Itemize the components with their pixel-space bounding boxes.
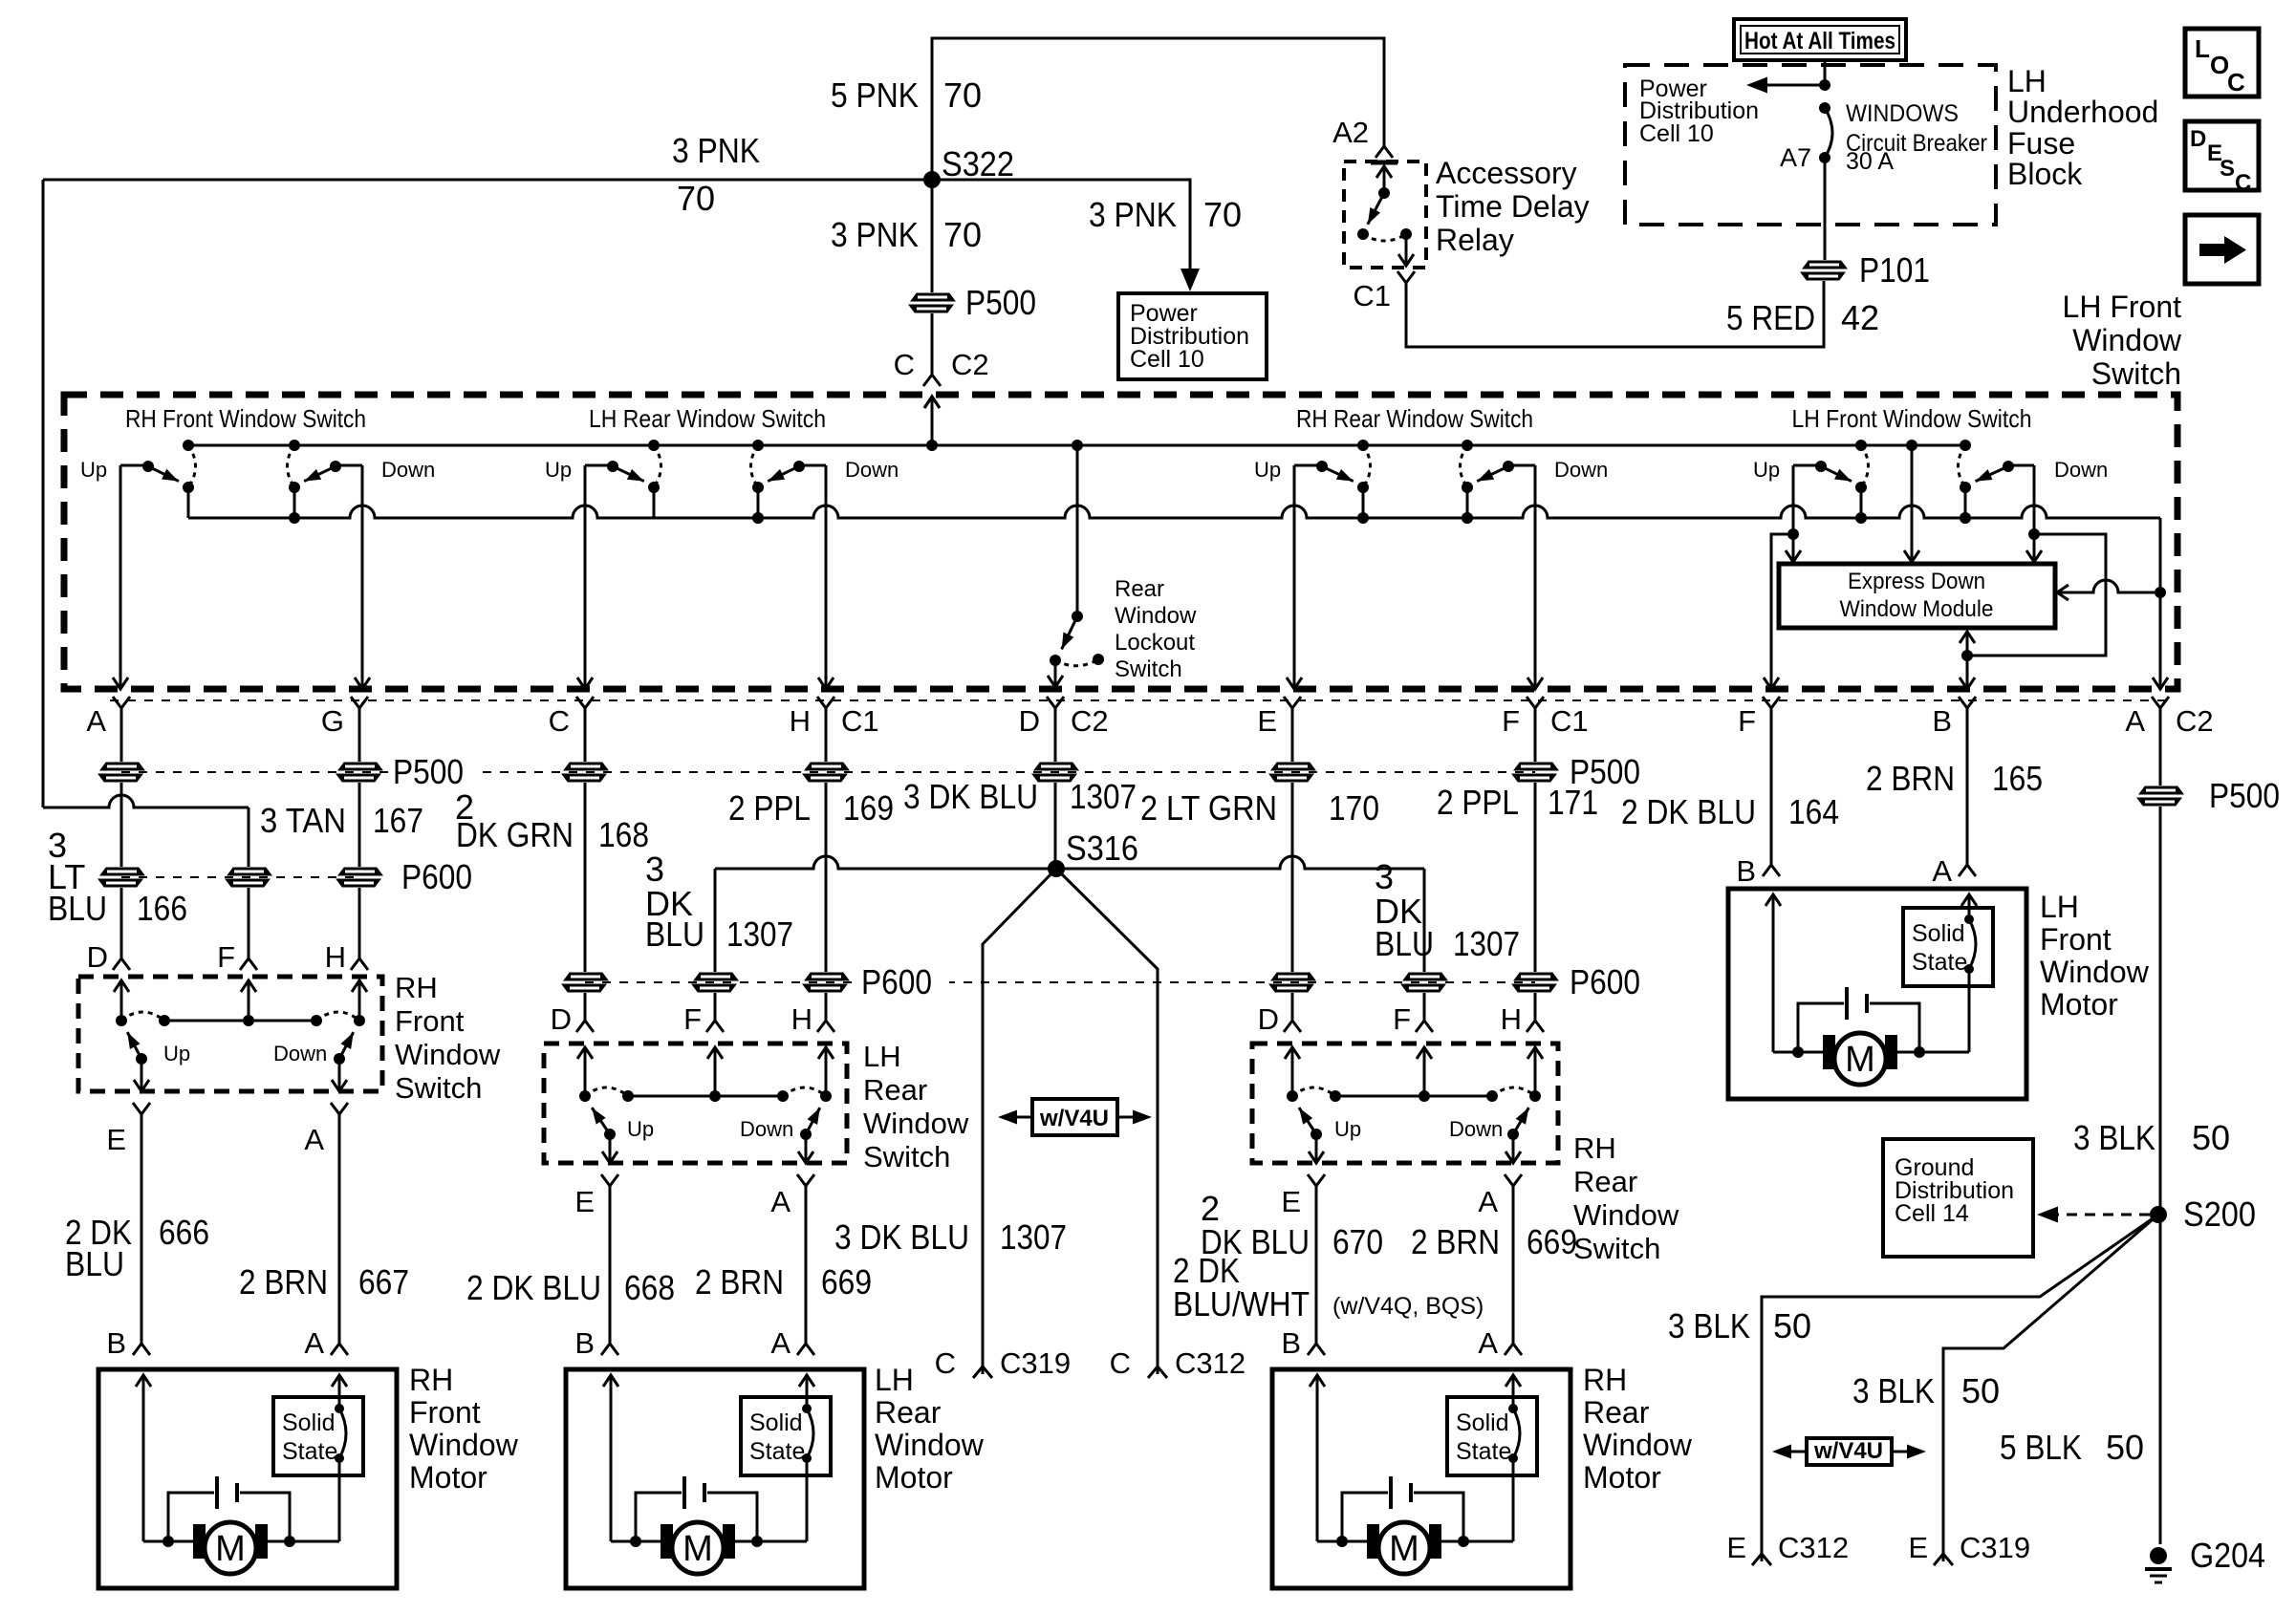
relay moving contact arrow up	[1376, 166, 1392, 178]
switch LH rear window switch (lower)	[544, 1040, 969, 1173]
svg-text:Up: Up	[545, 458, 572, 482]
switch RH rear window switch (lower)	[1252, 1044, 1679, 1265]
splice S316	[1048, 860, 1065, 877]
svg-text:Window: Window	[1573, 1198, 1679, 1232]
connector P600 row2 at x=864	[805, 973, 849, 980]
motor M with brushes	[1823, 1035, 1835, 1069]
svg-text:170: 170	[1329, 788, 1379, 828]
svg-text:Motor: Motor	[409, 1460, 487, 1495]
svg-text:70: 70	[943, 75, 982, 115]
svg-text:2 PPL: 2 PPL	[1437, 783, 1519, 822]
svg-text:D: D	[2190, 126, 2206, 152]
svg-text:A: A	[304, 1326, 324, 1360]
svg-text:2 DK BLU: 2 DK BLU	[466, 1268, 601, 1307]
svg-text:166: 166	[137, 889, 187, 928]
svg-text:A: A	[86, 704, 106, 738]
switch LH rear window switch (upper)	[545, 404, 899, 524]
svg-text:Accessory: Accessory	[1436, 156, 1577, 190]
svg-text:F: F	[217, 940, 235, 974]
svg-text:2 BRN: 2 BRN	[1866, 759, 1955, 798]
svg-text:H: H	[325, 940, 346, 974]
svg-text:3 PNK: 3 PNK	[672, 131, 760, 170]
wire brush leads	[1317, 1540, 1367, 1543]
connector P600 row2 at x=1352	[1271, 973, 1315, 980]
svg-text:3 PNK: 3 PNK	[1089, 195, 1177, 234]
inline connector C2	[923, 375, 941, 386]
svg-text:w/V4U: w/V4U	[1813, 1438, 1883, 1464]
wire S316 right branch to RH rear F	[1423, 869, 1426, 972]
svg-text:1307: 1307	[726, 915, 793, 954]
switch contacts + levers	[1310, 1129, 1322, 1140]
connector P500 at x=127	[100, 763, 144, 770]
svg-text:5 PNK: 5 PNK	[831, 75, 919, 115]
wire S316 distribution line	[715, 856, 1424, 869]
wire motor input right	[332, 1375, 347, 1387]
svg-text:C: C	[2235, 170, 2251, 196]
relay Accessory Time Delay Relay (dashed box)	[1344, 161, 1426, 268]
svg-text:G204: G204	[2190, 1536, 2265, 1575]
svg-text:2 BRN: 2 BRN	[695, 1262, 784, 1302]
svg-text:P500: P500	[2209, 776, 2280, 815]
relay fixed contact bar	[1371, 161, 1397, 165]
svg-text:Down: Down	[1449, 1117, 1503, 1141]
svg-text:167: 167	[373, 801, 423, 840]
svg-text:BLU: BLU	[645, 915, 704, 954]
svg-text:RH: RH	[409, 1363, 453, 1397]
svg-text:C319: C319	[1000, 1346, 1071, 1380]
svg-text:A2: A2	[1332, 116, 1369, 149]
svg-text:Down: Down	[740, 1117, 793, 1141]
node lockout feed junction	[1072, 440, 1083, 451]
connector P500 at x=1352	[1271, 763, 1315, 770]
svg-text:666: 666	[159, 1213, 209, 1252]
connector pin F at x=1853	[1763, 697, 1780, 708]
svg-text:668: 668	[624, 1268, 675, 1307]
node feed bus junction (C2 feed)	[926, 440, 938, 451]
svg-text:Time Delay: Time Delay	[1436, 189, 1590, 224]
svg-text:Motor: Motor	[1583, 1460, 1661, 1495]
svg-text:A: A	[770, 1185, 791, 1218]
svg-text:B: B	[1932, 704, 1952, 738]
svg-text:669: 669	[821, 1262, 872, 1302]
connector P500 at x=612	[564, 763, 608, 770]
battery (motor armature supply)	[636, 1493, 682, 1541]
wire switch outputs E A	[609, 1134, 612, 1161]
svg-text:Down: Down	[845, 458, 899, 482]
splice S322	[923, 171, 941, 188]
svg-text:Switch: Switch	[1573, 1232, 1660, 1265]
svg-text:P500: P500	[965, 283, 1036, 322]
svg-text:LH Front: LH Front	[2063, 290, 2182, 324]
wire RH rear switch down output to F	[1534, 465, 1537, 687]
circuit breaker WINDOWS 30 A	[1819, 102, 1830, 114]
svg-text:50: 50	[2192, 1118, 2230, 1157]
connector pins D F H (RH front lower)	[113, 958, 130, 970]
svg-text:1307: 1307	[1453, 924, 1520, 963]
svg-text:Solid: Solid	[282, 1410, 336, 1436]
switch rocker pivots	[579, 1090, 591, 1102]
svg-text:168: 168	[598, 815, 649, 854]
switch rocker pivots	[116, 1015, 127, 1026]
svg-text:3 PNK: 3 PNK	[831, 215, 919, 254]
svg-text:LH: LH	[875, 1363, 914, 1397]
wire D column (3 DK BLU 1307) to S316	[1054, 708, 1057, 762]
svg-text:E: E	[1908, 1531, 1928, 1564]
svg-text:DK BLU: DK BLU	[1201, 1222, 1310, 1261]
wire breaker output	[1824, 158, 1827, 260]
svg-text:Switch: Switch	[395, 1071, 482, 1105]
svg-text:C: C	[2227, 68, 2245, 97]
svg-text:M: M	[1845, 1040, 1875, 1080]
connector P600 at x=376	[338, 868, 382, 875]
box Ground Distribution Cell 14	[1883, 1139, 2033, 1257]
svg-text:A: A	[770, 1326, 791, 1360]
switch RH front window switch (lower)	[78, 971, 501, 1105]
splice S200	[2150, 1206, 2167, 1223]
switch rocker pivots	[1287, 1090, 1298, 1102]
svg-text:169: 169	[843, 788, 894, 828]
svg-text:S200: S200	[2183, 1194, 2256, 1234]
svg-text:S316: S316	[1066, 829, 1138, 868]
svg-text:D: D	[1258, 1002, 1279, 1036]
wire E->B LH rear motor (2 DK BLU 668)	[601, 1174, 618, 1186]
switch down contact lever	[1508, 464, 1535, 467]
wire A->A RH front motor (2 BRN 667)	[331, 1103, 348, 1114]
svg-text:B: B	[574, 1326, 595, 1360]
svg-text:P101: P101	[1859, 250, 1930, 290]
connector pin H at x=864	[817, 697, 834, 708]
solid state breaker	[1903, 908, 1993, 986]
svg-text:B: B	[1736, 854, 1756, 888]
connector P600 row 2 (dashed)	[585, 981, 1535, 983]
svg-text:Switch: Switch	[2091, 356, 2181, 391]
svg-text:C312: C312	[1175, 1346, 1245, 1380]
svg-text:Rear: Rear	[1573, 1165, 1637, 1198]
solid state breaker	[273, 1397, 363, 1475]
svg-text:Fuse: Fuse	[2007, 126, 2075, 161]
relay output to C1	[1405, 234, 1408, 254]
svg-text:C2: C2	[2176, 704, 2214, 738]
svg-text:C312: C312	[1778, 1531, 1849, 1564]
svg-text:Up: Up	[1254, 458, 1281, 482]
wire RH front switch down output to G	[361, 465, 364, 687]
wire 3 BLK 50 to C319	[1943, 1215, 2158, 1561]
svg-text:D: D	[1019, 704, 1040, 738]
connector P500 (power feed)	[911, 293, 955, 301]
connector pin G at x=376	[351, 697, 368, 708]
wire breaker to brush	[806, 1458, 809, 1541]
svg-text:C: C	[935, 1346, 956, 1380]
switch down contact lever	[2008, 464, 2034, 467]
svg-text:Relay: Relay	[1436, 223, 1514, 257]
junction to Power Distribution	[1819, 79, 1830, 91]
svg-text:Motor: Motor	[2040, 987, 2118, 1022]
wire A->A RH rear motor (2 BRN 669)	[1505, 1174, 1522, 1186]
wire switch inputs D F H	[577, 1047, 593, 1059]
wire breaker to brush	[1968, 969, 1971, 1052]
svg-text:Window Module: Window Module	[1840, 596, 1994, 622]
svg-text:Up: Up	[163, 1042, 190, 1065]
svg-text:B: B	[106, 1326, 126, 1360]
connector P600 at x=260	[227, 868, 271, 875]
svg-text:Up: Up	[627, 1117, 654, 1141]
svg-text:1307: 1307	[1000, 1217, 1067, 1257]
svg-text:171: 171	[1548, 783, 1598, 822]
connector P500 row (dashed)	[121, 771, 1535, 773]
wire 3 PNK 70 horizontal to left edge	[43, 179, 932, 182]
box LH Underhood Fuse Block (dashed)	[1625, 65, 1996, 225]
switch up contact lever	[1294, 464, 1322, 467]
svg-text:E: E	[106, 1123, 126, 1156]
svg-text:WINDOWS: WINDOWS	[1846, 100, 1959, 127]
svg-text:RH Front Window Switch: RH Front Window Switch	[125, 404, 366, 433]
wire motor input left	[136, 1375, 151, 1387]
connector pin E at x=1352	[1284, 697, 1301, 708]
connector P500 at x=1104	[1034, 763, 1078, 770]
svg-text:3 TAN: 3 TAN	[260, 801, 346, 840]
connector P500 at x=1606	[1514, 763, 1558, 770]
svg-text:Express Down: Express Down	[1848, 569, 1985, 594]
box LOC	[2185, 29, 2259, 97]
svg-text:3 BLK: 3 BLK	[2073, 1118, 2155, 1157]
svg-text:(w/V4Q, BQS): (w/V4Q, BQS)	[1332, 1293, 1484, 1320]
svg-text:Front: Front	[409, 1395, 481, 1430]
wire switch common return line	[188, 506, 2160, 518]
switch down contact lever	[336, 464, 362, 467]
node LH front feed to module	[1906, 440, 1917, 451]
wire 5 RED 42 from C1 to P101	[1406, 281, 1824, 347]
svg-text:M: M	[215, 1529, 246, 1569]
wire 5 PNK 70 from S322 up and over to relay A2	[932, 38, 1384, 180]
svg-text:30 A: 30 A	[1846, 148, 1894, 175]
svg-text:A: A	[1932, 854, 1952, 888]
wire 3 BLK 50 to C312	[1762, 1215, 2158, 1561]
svg-text:BLU: BLU	[65, 1244, 124, 1283]
svg-text:Motor: Motor	[875, 1460, 953, 1495]
wire E->B RH rear motor (2 DK BLU 670)	[1308, 1174, 1325, 1186]
svg-text:S322: S322	[942, 144, 1014, 183]
wire LH rear switch down output to H	[825, 465, 828, 687]
connector P600 row2 at x=1490	[1403, 973, 1447, 980]
svg-text:Window: Window	[409, 1428, 519, 1462]
svg-text:50: 50	[1773, 1306, 1811, 1345]
svg-text:A: A	[1478, 1185, 1498, 1218]
svg-text:E: E	[1257, 704, 1277, 738]
svg-text:42: 42	[1841, 298, 1879, 337]
motor RH front window motor	[98, 1363, 519, 1588]
svg-text:A7: A7	[1780, 143, 1811, 172]
svg-text:Switch: Switch	[863, 1140, 950, 1173]
svg-text:BLU: BLU	[48, 889, 107, 928]
wire H column (2 PPL 169)	[825, 708, 828, 762]
svg-text:RH: RH	[1573, 1131, 1616, 1165]
motor RH rear window motor	[1272, 1363, 1693, 1588]
wire 3 PNK 70 down from S322 to P500	[931, 180, 934, 292]
svg-text:Hot At All Times: Hot At All Times	[1744, 28, 1895, 54]
connector P500 at x=864	[805, 763, 849, 770]
svg-text:2 PPL: 2 PPL	[728, 788, 811, 828]
switch up contact lever	[120, 464, 148, 467]
wire brush leads	[611, 1540, 661, 1543]
svg-text:F: F	[1393, 1002, 1411, 1036]
battery (motor armature supply)	[1342, 1493, 1388, 1541]
svg-text:S: S	[2220, 156, 2235, 182]
svg-text:H: H	[790, 704, 811, 738]
svg-text:70: 70	[943, 215, 982, 254]
svg-text:A: A	[304, 1123, 324, 1156]
svg-text:H: H	[1501, 1002, 1522, 1036]
svg-text:M: M	[682, 1529, 713, 1569]
wire switch inputs D F H	[1285, 1047, 1300, 1059]
wire S316 left branch to LH rear F	[714, 869, 717, 972]
svg-text:M: M	[1389, 1529, 1419, 1569]
svg-text:165: 165	[1992, 759, 2043, 798]
svg-text:670: 670	[1332, 1222, 1383, 1261]
ground G204	[2150, 1547, 2167, 1564]
relay NC contact	[1400, 228, 1412, 240]
connector P600 row2 at x=1606	[1514, 973, 1558, 980]
svg-text:G: G	[321, 704, 344, 738]
svg-text:RH Rear Window Switch: RH Rear Window Switch	[1296, 404, 1533, 433]
switch down contact lever	[799, 464, 826, 467]
svg-text:Block: Block	[2007, 157, 2083, 191]
svg-text:Lockout: Lockout	[1115, 630, 1195, 656]
connector pin F at x=1606	[1527, 697, 1544, 708]
svg-text:P600: P600	[861, 962, 932, 1001]
svg-text:Underhood: Underhood	[2007, 95, 2158, 129]
wire into switch assembly C / C2	[931, 313, 934, 375]
svg-text:D: D	[551, 1002, 572, 1036]
svg-text:LH Front Window Switch: LH Front Window Switch	[1792, 404, 2032, 433]
solid state breaker	[741, 1397, 831, 1475]
motor M with brushes	[661, 1524, 673, 1559]
battery (motor armature supply)	[168, 1493, 214, 1541]
svg-text:3: 3	[645, 850, 664, 889]
svg-text:1307: 1307	[1070, 777, 1137, 816]
switch contacts + levers	[136, 1053, 147, 1065]
svg-text:LH Rear Window Switch: LH Rear Window Switch	[589, 404, 826, 433]
box w/V4U (center)	[1032, 1099, 1117, 1135]
svg-text:70: 70	[677, 179, 715, 218]
svg-text:A: A	[1478, 1326, 1498, 1360]
svg-text:3 DK BLU: 3 DK BLU	[834, 1217, 969, 1257]
wire breaker to brush	[1512, 1458, 1515, 1541]
svg-text:3 DK BLU: 3 DK BLU	[903, 777, 1038, 816]
svg-text:A: A	[2125, 704, 2145, 738]
power entry arrow into assembly	[924, 397, 940, 408]
wire 3 PNK 70 from S322 to Power Distribution	[932, 180, 1190, 272]
box DESC	[2185, 121, 2259, 190]
svg-text:Up: Up	[1753, 458, 1780, 482]
wire motor input left	[1765, 894, 1781, 906]
svg-text:Down: Down	[2054, 458, 2108, 482]
svg-text:LH: LH	[2040, 890, 2079, 924]
wire A/C2 ground column	[2159, 708, 2162, 785]
svg-text:Down: Down	[273, 1042, 327, 1065]
connector P500 (ground col)	[2139, 786, 2183, 794]
svg-text:Window: Window	[2040, 955, 2150, 989]
motor LH rear window motor	[566, 1363, 985, 1588]
svg-text:P600: P600	[401, 857, 472, 896]
svg-text:State: State	[1456, 1438, 1511, 1465]
wire brush leads	[1773, 1051, 1823, 1054]
svg-text:70: 70	[1203, 195, 1242, 234]
wire F column (2 PPL 171)	[1534, 708, 1537, 762]
connector pins D F H (LH rear lower)	[576, 1021, 594, 1032]
svg-text:F: F	[683, 1002, 702, 1036]
svg-text:State: State	[282, 1438, 337, 1465]
svg-text:BLU/WHT: BLU/WHT	[1173, 1284, 1310, 1323]
svg-text:E: E	[574, 1185, 595, 1218]
svg-text:RH: RH	[1583, 1363, 1627, 1397]
wire LH front up output + branch to F	[1792, 465, 1795, 560]
svg-text:Cell 14: Cell 14	[1895, 1200, 1969, 1227]
svg-text:Rear: Rear	[863, 1073, 927, 1107]
wire switch inputs D F H	[114, 980, 129, 992]
svg-text:C1: C1	[841, 704, 879, 738]
svg-text:2 LT GRN: 2 LT GRN	[1140, 788, 1277, 828]
wire switch outputs E A	[141, 1059, 143, 1089]
wire RH front switch up output to A	[119, 465, 122, 687]
svg-text:E: E	[1726, 1531, 1746, 1564]
svg-text:2 BRN: 2 BRN	[1411, 1222, 1500, 1261]
svg-text:164: 164	[1788, 792, 1839, 831]
svg-text:F: F	[1502, 704, 1520, 738]
box w/V4U (ground)	[1807, 1438, 1892, 1465]
switch LH front window switch (upper)	[1753, 404, 2108, 524]
connector pin D at x=1104	[1047, 697, 1064, 708]
wire motor input right	[799, 1375, 814, 1387]
svg-text:DK GRN: DK GRN	[456, 815, 574, 854]
switch RH rear window switch (upper)	[1254, 404, 1608, 524]
switch up contact lever	[1793, 464, 1821, 467]
wire breaker to brush	[338, 1458, 341, 1541]
svg-text:Rear: Rear	[1583, 1395, 1650, 1430]
svg-text:669: 669	[1527, 1222, 1577, 1261]
relay pivot	[1378, 187, 1390, 199]
wire F feed from S322 (left edge)	[42, 180, 45, 807]
svg-text:F: F	[1738, 704, 1756, 738]
svg-text:C2: C2	[1071, 704, 1109, 738]
svg-text:5 RED: 5 RED	[1726, 298, 1815, 337]
wire motor input left	[603, 1375, 618, 1387]
svg-text:Rear: Rear	[1115, 576, 1164, 602]
wire module sense to B exit	[1966, 634, 1969, 656]
wire LH front down output + branch to B	[2033, 465, 2036, 560]
svg-text:2 BRN: 2 BRN	[239, 1262, 328, 1302]
node battery taps	[1336, 1536, 1348, 1547]
wire from Hot feed	[1824, 60, 1827, 85]
svg-text:Rear: Rear	[875, 1395, 942, 1430]
switch rear window lockout switch	[1048, 445, 1197, 687]
connector pin A at x=2260	[2152, 697, 2169, 708]
svg-text:RH: RH	[395, 971, 438, 1004]
svg-text:Down: Down	[1554, 458, 1608, 482]
connector face row (thin dashed)	[110, 699, 2170, 701]
svg-text:B: B	[1281, 1326, 1301, 1360]
svg-text:Up: Up	[1334, 1117, 1361, 1141]
connector P500 at x=376	[338, 763, 382, 770]
svg-text:H: H	[791, 1002, 812, 1036]
wire E->B RH front motor (2 DK BLU 666)	[133, 1103, 150, 1114]
svg-text:LH: LH	[2007, 64, 2047, 98]
svg-text:P500: P500	[393, 752, 464, 791]
wire A->A LH rear motor (2 BRN 669)	[797, 1174, 814, 1186]
connector pin C at x=612	[576, 697, 594, 708]
box forward arrow	[2185, 215, 2259, 284]
svg-text:C1: C1	[1550, 704, 1589, 738]
svg-text:C: C	[1110, 1346, 1131, 1380]
